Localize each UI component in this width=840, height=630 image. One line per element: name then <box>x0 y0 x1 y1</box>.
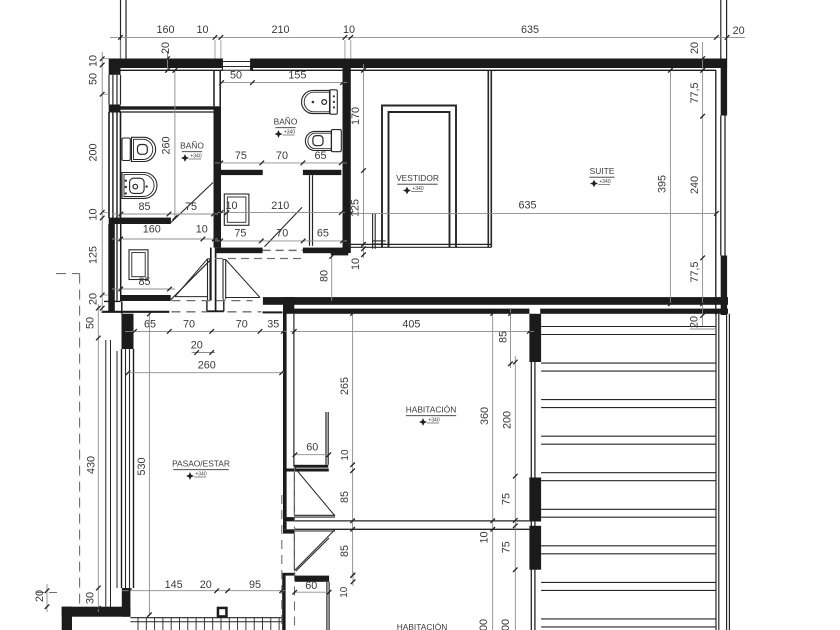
wall: main band A <box>263 297 728 305</box>
dashed: left projection vertical <box>79 274 81 606</box>
wall: vestidor/suite partition <box>488 70 491 247</box>
wall: top exterior right segment <box>251 59 727 71</box>
dim: 100 hab2 partial <box>500 619 512 630</box>
svg-text:200: 200 <box>501 411 513 429</box>
dim: 260 bano1 <box>160 136 172 154</box>
wall: vestidor bottom connector <box>348 244 491 247</box>
svg-text:20: 20 <box>200 579 212 591</box>
opening: hall dashed line <box>215 258 302 260</box>
svg-text:10: 10 <box>340 449 351 461</box>
svg-text:50: 50 <box>230 69 242 81</box>
wall: main band B habitacion <box>286 309 529 314</box>
dim: 200 left <box>87 143 99 161</box>
svg-text:85: 85 <box>339 491 351 503</box>
dim: 60 hab2 <box>292 580 331 595</box>
svg-text:85: 85 <box>138 201 150 213</box>
dashed: bottom-left short <box>36 592 62 594</box>
dim: 160 top <box>156 24 174 36</box>
window: top wall opening between banos <box>223 59 251 71</box>
label: BANO 2 <box>274 117 298 138</box>
dim: 360 hab1 <box>479 407 491 425</box>
dim: 85 vanity line <box>112 287 175 292</box>
svg-text:10: 10 <box>339 586 350 598</box>
dim: 85 stair wall <box>497 308 512 368</box>
label: SUITE <box>589 166 614 187</box>
dim: bano2 right v-line <box>361 64 366 258</box>
dim: 20 right stairs <box>688 316 716 329</box>
dim: bano2 75/70/65 lower line <box>215 239 347 244</box>
svg-text:10: 10 <box>343 24 355 36</box>
label: BANO 1 <box>180 141 204 162</box>
dim: 395 suite line <box>668 68 673 306</box>
svg-text:360: 360 <box>479 407 491 425</box>
svg-text:35: 35 <box>267 318 279 330</box>
closet: vestidor U inner <box>389 112 450 247</box>
wall: bano2 bottom left segment <box>216 248 262 254</box>
dim: 10 hab divider <box>478 531 490 543</box>
dim: 10 bano1 <box>196 223 208 235</box>
wall: top-left corner block <box>109 68 121 75</box>
door-swing: hab2 entry leaf <box>296 538 329 571</box>
svg-text:200: 200 <box>87 143 99 161</box>
svg-text:265: 265 <box>339 377 351 395</box>
svg-text:405: 405 <box>402 318 420 330</box>
dim: 20 bottom <box>200 579 212 591</box>
dim: 20 left <box>87 293 99 305</box>
wall: bano1 left cavity wall <box>109 112 121 218</box>
opening: pasillo dashed lower <box>171 311 261 313</box>
dim: 70 hall a <box>183 318 195 330</box>
fixture: bano2 toilet <box>305 130 341 152</box>
dim: 20 bottom-left <box>34 584 49 612</box>
dim: top chain line <box>110 35 745 40</box>
dim: 395 suite <box>656 175 668 193</box>
dim: 240 right <box>689 176 701 194</box>
wall: left bath1 upper block <box>109 105 121 113</box>
svg-text:100: 100 <box>500 619 512 630</box>
dim: 60 hab1 closet <box>293 441 331 457</box>
dim: 265 hab1 <box>339 377 351 395</box>
dim: 145 bottom <box>165 579 183 591</box>
svg-text:160: 160 <box>156 24 174 36</box>
dim: 200 hab2 partial <box>478 619 490 630</box>
svg-text:10: 10 <box>87 208 99 220</box>
svg-text:70: 70 <box>183 318 195 330</box>
dim: bano1 160/10 line <box>112 237 218 242</box>
label: PASAO/ESTAR <box>172 459 230 480</box>
wall: divider lower <box>282 573 285 630</box>
door: hab2 leaf+swing <box>294 530 335 571</box>
svg-text:20: 20 <box>34 590 46 602</box>
svg-text:75: 75 <box>501 541 513 553</box>
wall: hab2 entry stub <box>282 573 295 576</box>
wall: stairwell block mid <box>529 478 541 522</box>
wall: divider pasillo-habitacion upper <box>283 305 294 517</box>
svg-text:530: 530 <box>136 457 148 475</box>
wall: left lower block (50) <box>122 314 134 349</box>
window: right wall (240) <box>721 116 725 256</box>
svg-text:10: 10 <box>225 200 237 212</box>
stairs: treads <box>541 327 716 627</box>
svg-text:+340: +340 <box>428 417 439 423</box>
dim: 200 stairwell <box>501 411 513 429</box>
wall: top exterior left segment <box>109 59 223 71</box>
dim: 75 bano2 low <box>234 227 246 239</box>
opening: bano2 bottom dashed <box>263 249 303 251</box>
dim: 10 bano2 <box>225 200 237 212</box>
svg-text:60: 60 <box>305 580 317 592</box>
svg-text:+340: +340 <box>599 179 610 185</box>
wall: pasillo top wall D <box>102 311 170 313</box>
dim: 10 vestidor wall <box>350 258 362 270</box>
svg-text:260: 260 <box>198 359 216 371</box>
dim: 77,5 right low <box>689 261 701 282</box>
wall: lobby mullion foot <box>207 299 224 311</box>
svg-text:20: 20 <box>160 42 172 54</box>
dim: 430 left <box>85 456 97 474</box>
svg-text:635: 635 <box>518 199 536 211</box>
svg-text:210: 210 <box>271 200 289 212</box>
dim: 50 bano2 <box>230 69 242 81</box>
dim: 635 top <box>521 24 539 36</box>
dim: 260 pasillo <box>126 359 284 375</box>
svg-text:20: 20 <box>87 293 99 305</box>
svg-text:20: 20 <box>733 25 745 37</box>
dim: 20 wall thickness <box>160 42 172 73</box>
window: left wall upper (50) <box>109 75 121 105</box>
svg-text:200: 200 <box>478 619 490 630</box>
svg-text:260: 260 <box>160 136 172 154</box>
wall: bano1 upper partition <box>121 106 214 112</box>
wall: terrace L-step <box>62 607 131 630</box>
svg-text:50: 50 <box>87 73 99 85</box>
door: hab1 leaf+swing <box>294 468 335 518</box>
dim: 125 vestidor <box>349 199 361 217</box>
dim: 10 left top <box>87 55 99 67</box>
wall: pasillo top line upper <box>104 300 121 302</box>
wall: stairwell block bottom <box>529 526 541 570</box>
wall: lobby mullion <box>211 248 216 311</box>
svg-text:10: 10 <box>87 55 99 67</box>
wall: wall D right piece <box>263 311 283 313</box>
svg-text:VESTIDOR: VESTIDOR <box>396 173 439 183</box>
svg-text:10: 10 <box>196 223 208 235</box>
svg-text:70: 70 <box>276 150 288 162</box>
dim: right chain line <box>700 42 705 326</box>
dim: 360/10 chain line <box>490 311 495 630</box>
svg-text:160: 160 <box>143 223 161 235</box>
svg-text:60: 60 <box>306 441 318 453</box>
svg-text:75: 75 <box>185 201 197 213</box>
dim: 10 top b <box>343 24 355 36</box>
svg-text:80: 80 <box>318 270 330 282</box>
dim: 210 bano2 line <box>218 210 346 215</box>
svg-text:145: 145 <box>165 579 183 591</box>
door-swing: hall right triangle <box>226 260 260 298</box>
dim: 210 bano2 <box>271 200 289 212</box>
dim: left ext lines <box>102 59 109 295</box>
svg-text:635: 635 <box>521 24 539 36</box>
svg-text:85: 85 <box>497 331 509 343</box>
svg-text:85: 85 <box>138 276 150 288</box>
wall: hab2 partition lines <box>327 582 329 630</box>
wall: vanity room bottom segment <box>121 295 171 301</box>
svg-text:77,5: 77,5 <box>689 82 701 103</box>
svg-text:10: 10 <box>350 258 362 270</box>
svg-text:155: 155 <box>288 69 306 81</box>
wall: bano2 bottom right segment <box>303 248 348 256</box>
dim: 85 door2 <box>339 545 351 557</box>
dim: 405 line <box>290 329 534 334</box>
svg-text:65: 65 <box>144 318 156 330</box>
dim: 210 top <box>271 24 289 36</box>
dim: top extension lines <box>121 40 351 59</box>
dim: 20 right top <box>689 42 701 54</box>
wall: left wall mid (vanity room) <box>108 224 120 312</box>
svg-text:BAÑO: BAÑO <box>274 117 298 127</box>
dim: 265/85 chain line <box>350 311 355 578</box>
dashed: divider face a <box>281 495 283 630</box>
fixture: bano1 toilet <box>122 137 156 161</box>
dim: bano2 75/70/65 upper line <box>215 161 347 166</box>
svg-text:20: 20 <box>688 316 700 328</box>
svg-text:65: 65 <box>317 227 329 239</box>
opening: pasillo dashed upper <box>171 300 252 302</box>
svg-text:125: 125 <box>87 246 99 264</box>
wall: hab1 closet <box>283 412 329 472</box>
svg-text:70: 70 <box>236 318 248 330</box>
svg-text:75: 75 <box>235 150 247 162</box>
svg-text:HABITACIÓN: HABITACIÓN <box>406 405 457 415</box>
dim: 85 bano1 <box>138 201 150 213</box>
svg-text:SUITE: SUITE <box>590 166 615 176</box>
wall: bano2 window post <box>251 59 253 72</box>
dim: 77,5 right up <box>689 82 701 103</box>
dashed: divider face b <box>294 467 296 630</box>
dim: 10 left mid <box>87 208 99 220</box>
svg-text:65: 65 <box>314 150 326 162</box>
dim: 10 hab2 <box>339 571 355 598</box>
dim: 405 habitacion <box>402 318 420 330</box>
dim: 125 left <box>87 246 99 264</box>
svg-text:240: 240 <box>689 176 701 194</box>
closet: vestidor U outer <box>382 106 456 248</box>
svg-text:20: 20 <box>191 339 203 351</box>
svg-text:170: 170 <box>350 107 362 125</box>
svg-text:BAÑO: BAÑO <box>180 141 204 151</box>
wall: stairwell block top <box>529 314 541 362</box>
wall: pasillo jamb vertical <box>121 301 123 313</box>
fixture: vanity basin <box>129 250 148 280</box>
dim: 145/20/95 line <box>122 588 286 593</box>
svg-text:10: 10 <box>478 531 490 543</box>
dim: 530 pasillo <box>136 457 148 475</box>
wall: left bottom block <box>122 588 131 617</box>
fixture: bano2 shower tray <box>224 194 249 225</box>
dim: 200/75/75 chain line <box>513 356 518 630</box>
svg-text:75: 75 <box>234 227 246 239</box>
wall: divider jamb block <box>283 517 294 534</box>
svg-text:50: 50 <box>84 317 96 329</box>
svg-text:75: 75 <box>501 493 513 505</box>
fixture: bano2 bidet <box>302 90 338 114</box>
window: left wall lower (430) <box>106 340 134 612</box>
svg-text:+340: +340 <box>284 129 295 135</box>
svg-text:PASAO/ESTAR: PASAO/ESTAR <box>172 459 230 469</box>
dim: 160 bano1 <box>143 223 161 235</box>
dim: 260 bano1 line <box>173 68 178 220</box>
wall: hab2 entry wall <box>295 576 329 582</box>
dim: 85 door1 <box>339 491 351 503</box>
dim: bano1 85/75 line <box>112 212 218 217</box>
svg-text:95: 95 <box>249 579 261 591</box>
dim: 95 bottom <box>249 579 261 591</box>
dim: 70 hall b <box>236 318 248 330</box>
wall: bano2 mid partition left <box>215 170 263 175</box>
dim: 75 bar1 <box>501 493 513 505</box>
dim: 155 bano2 <box>288 69 306 81</box>
dim: 10 hab1 closet <box>340 449 351 461</box>
dim: 20 top right <box>733 25 745 37</box>
door-swing: bano1 door leaf <box>171 183 213 223</box>
dim: 65 bano2 low <box>317 227 329 239</box>
line: top-left wall projection <box>121 0 127 59</box>
dim: 530 line <box>147 312 152 617</box>
dim: 35 hall <box>267 318 279 330</box>
dim: left lower chain line <box>96 304 101 612</box>
wall: bano2 duct lines <box>310 175 313 246</box>
wall: vestidor niche lines <box>373 213 386 249</box>
svg-text:20: 20 <box>689 42 701 54</box>
door: hall leaf right <box>223 260 226 300</box>
svg-text:77,5: 77,5 <box>689 261 701 282</box>
terrace: hatched strip <box>130 618 283 630</box>
svg-text:30: 30 <box>84 592 96 604</box>
wall: bano1 bottom left segment <box>109 218 171 224</box>
wall: bano2 right wall upper <box>343 59 351 254</box>
dim: 75 bano1 <box>185 201 197 213</box>
wall: right exterior block upper <box>716 59 727 316</box>
wall: right exterior block lower <box>721 256 727 316</box>
door-swing: bano2 lower door leaf <box>265 207 303 246</box>
column: terrace pillar <box>217 607 228 618</box>
dim: 85 vanity <box>138 276 150 288</box>
wall: bano2 mid partition right <box>303 170 341 175</box>
dim: 75 bano2 up <box>235 150 247 162</box>
svg-text:430: 430 <box>85 456 97 474</box>
fixture: bano1 bidet <box>122 173 157 199</box>
dim: 635 interior line <box>349 211 719 216</box>
dim: left chain line <box>100 52 105 312</box>
svg-text:+340: +340 <box>190 153 201 159</box>
dim: 635 interior <box>518 199 536 211</box>
dim: 20 hall <box>191 339 215 354</box>
label: VESTIDOR <box>396 173 439 194</box>
svg-text:85: 85 <box>339 545 351 557</box>
wall: stairwell left thin <box>531 314 535 630</box>
label: HABITACION 2 <box>397 622 448 630</box>
dim: 50 left lower <box>84 317 96 329</box>
dim: 65 bano2 up <box>314 150 326 162</box>
dim: 30 left <box>84 592 96 604</box>
door: hall leaf left <box>208 259 211 301</box>
svg-text:10: 10 <box>196 24 208 36</box>
dim: 50 left <box>87 73 99 85</box>
svg-text:395: 395 <box>656 175 668 193</box>
door-swing: vanity room door leaf <box>171 259 211 300</box>
svg-text:HABITACIÓN: HABITACIÓN <box>397 622 448 630</box>
dim: 65 hall <box>144 318 156 330</box>
wall: divider head blob <box>283 297 294 313</box>
dim: 10 top a <box>196 24 208 36</box>
wall: shared wall bano1/bano2 <box>214 70 222 247</box>
label: HABITACION 1 <box>406 405 457 426</box>
dim: 65/70/70/35 line <box>125 329 287 334</box>
dim: bano2 50/155 line <box>219 80 347 85</box>
svg-text:+340: +340 <box>412 186 423 192</box>
line: top-right wall projection <box>721 0 727 59</box>
svg-text:70: 70 <box>276 227 288 239</box>
dim: 170 vestidor <box>350 107 362 125</box>
svg-text:210: 210 <box>271 24 289 36</box>
wall: hab1/hab2 divider lines <box>294 521 529 529</box>
door-swing: hall left triangle <box>175 259 208 297</box>
dashed: left projection horizontal <box>56 273 80 275</box>
svg-text:+340: +340 <box>195 471 206 477</box>
wall: right exterior lower double <box>716 314 729 630</box>
dim: 70 bano2 up <box>276 150 288 162</box>
dim: 75 bar2 <box>501 541 513 553</box>
wall: main band B stairs <box>540 309 728 314</box>
svg-text:125: 125 <box>349 199 361 217</box>
dim: 70 bano2 low <box>276 227 288 239</box>
dim: 80 passage <box>318 254 334 304</box>
